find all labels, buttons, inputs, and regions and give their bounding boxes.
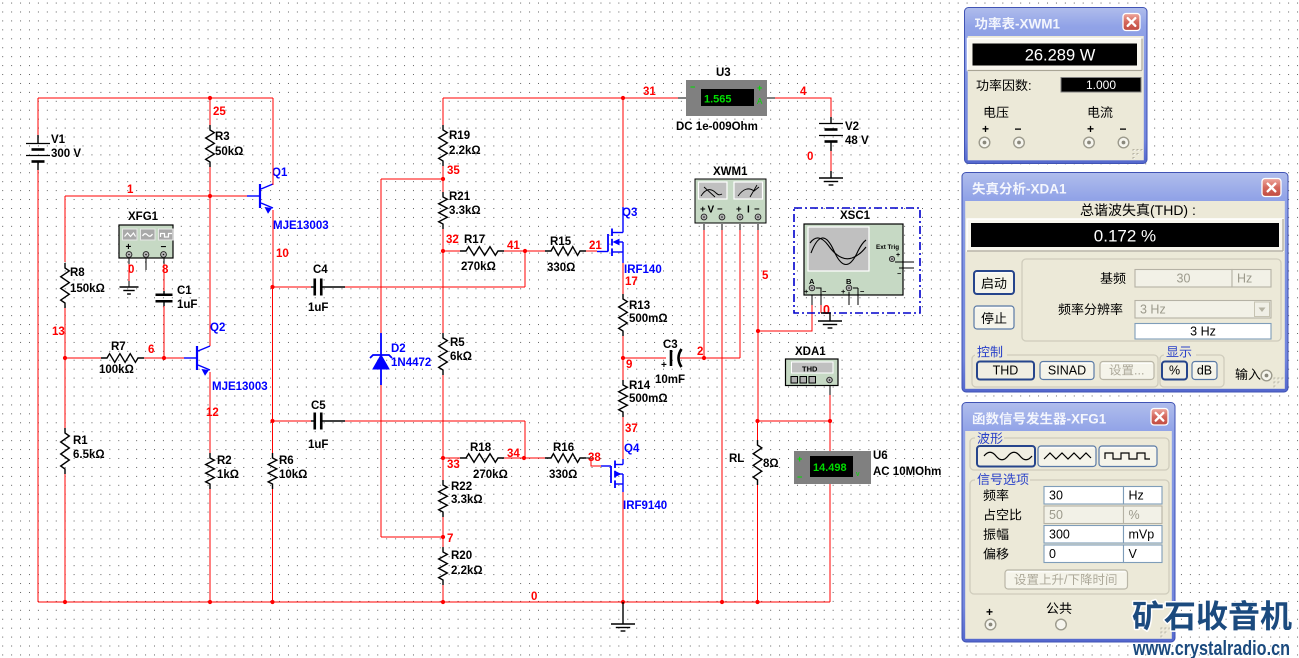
svg-text:R7: R7 [111, 341, 126, 353]
svg-text:−: − [1015, 122, 1022, 136]
svg-text:R2: R2 [217, 455, 232, 467]
svg-text:V2: V2 [845, 121, 859, 133]
wire C3 to wattmeter [680, 357, 740, 359]
svg-text:C3: C3 [663, 339, 678, 351]
capacitor C1 [156, 285, 198, 311]
svg-text:(THD) :: (THD) : [1150, 202, 1196, 218]
svg-text:13: 13 [52, 326, 65, 338]
svg-text:1uF: 1uF [177, 299, 197, 311]
svg-text:−: − [897, 271, 901, 278]
wire R18 to node 34 [504, 457, 545, 459]
node 5 label [762, 270, 769, 282]
wire XWM1 terminal 4 node 5 [757, 224, 759, 421]
svg-text:C5: C5 [311, 400, 326, 412]
junction node 33 [441, 456, 445, 460]
junction node 41 [523, 249, 527, 253]
svg-text:R17: R17 [464, 234, 485, 246]
wire node 1 horizontal [65, 195, 260, 197]
svg-text:R6: R6 [279, 455, 294, 467]
svg-text:−: − [717, 204, 723, 215]
junction node 31 [621, 96, 625, 100]
svg-text:+: + [841, 287, 846, 296]
svg-text:IRF9140: IRF9140 [623, 500, 667, 512]
wire R3 top [209, 98, 211, 125]
svg-text:3.3kΩ: 3.3kΩ [451, 494, 483, 506]
svg-text:-XDA1: -XDA1 [1026, 182, 1067, 197]
svg-text:+: + [896, 252, 900, 259]
wire Q3 drain [622, 98, 624, 207]
svg-text:www.crystalradio.cn: www.crystalradio.cn [1132, 637, 1290, 658]
svg-text:0: 0 [531, 591, 537, 603]
svg-text:+: + [661, 360, 667, 371]
svg-text:R14: R14 [629, 380, 651, 392]
ground XFG1 [120, 287, 139, 294]
wire V1 top [37, 98, 39, 135]
svg-text:150kΩ: 150kΩ [70, 283, 105, 295]
svg-text:C1: C1 [177, 285, 192, 297]
capacitor C5 [308, 400, 345, 451]
wire node 1 left vertical [64, 196, 66, 262]
junction node 1 [208, 194, 212, 198]
svg-text:XDA1: XDA1 [795, 346, 826, 358]
node 7 label [447, 533, 453, 545]
svg-text:21: 21 [589, 240, 602, 252]
svg-text:0: 0 [807, 151, 813, 163]
wire R15 to Q3 gate node 21 [586, 250, 597, 252]
svg-text:THD: THD [802, 365, 818, 374]
svg-text:I: I [747, 205, 750, 216]
svg-text:%: % [1169, 364, 1180, 378]
svg-text:B: B [846, 277, 852, 286]
wire node 35 to D2 [381, 179, 443, 333]
svg-text:R19: R19 [449, 130, 470, 142]
oscilloscope XSC1 [794, 208, 920, 313]
instrument panel wattmeter XWM1 [965, 8, 1148, 164]
wire R16 to Q4 gate node 38 [586, 458, 601, 466]
resistor R5 [439, 333, 472, 375]
wire node 5 horizontal [758, 420, 831, 422]
svg-text:−: − [860, 287, 865, 296]
wire R8 to node 13 [64, 308, 66, 358]
svg-text:Hz: Hz [1129, 489, 1144, 503]
svg-text:3 Hz: 3 Hz [1190, 325, 1216, 339]
svg-text:−: − [754, 204, 760, 215]
svg-text:mVp: mVp [1129, 528, 1155, 542]
wire R22 to node 7 [442, 517, 444, 537]
mosfet Q3 IRF140 [597, 207, 662, 276]
svg-text:U6: U6 [873, 450, 888, 462]
svg-text:R21: R21 [449, 191, 471, 203]
voltmeter U6 [794, 450, 941, 484]
svg-text:A: A [757, 97, 763, 106]
svg-text:32: 32 [446, 234, 459, 246]
resistor R6 [268, 453, 307, 489]
svg-text:dB: dB [1197, 364, 1212, 378]
svg-text:DC 1e-009Ohm: DC 1e-009Ohm [676, 121, 758, 133]
node 25 label [213, 106, 226, 118]
svg-text:6: 6 [148, 344, 154, 356]
junction RL rail [755, 600, 759, 604]
svg-text:+: + [1087, 122, 1094, 136]
wire R5 top [442, 251, 444, 333]
svg-text:10mF: 10mF [655, 374, 685, 386]
svg-text:48 V: 48 V [845, 135, 869, 147]
wire top-left rail node 25 [38, 97, 273, 99]
node 0 label [531, 591, 537, 603]
junction node 35 [441, 177, 445, 181]
resistor R20 [439, 537, 483, 585]
svg-text::: : [1028, 78, 1032, 93]
wire XFG1 plus pin to ground [128, 258, 130, 287]
node 9 label [626, 359, 632, 371]
svg-text:1: 1 [127, 184, 134, 196]
watermark crystalradio logo [1132, 600, 1291, 658]
svg-text:+: + [982, 122, 989, 136]
svg-text:R15: R15 [550, 236, 572, 248]
resistor R13 [619, 294, 668, 336]
wire node 32 to R17 [443, 250, 460, 252]
svg-text:7: 7 [447, 533, 453, 545]
svg-text:IRF140: IRF140 [624, 264, 662, 276]
node 10 label [276, 248, 289, 260]
svg-text:500mΩ: 500mΩ [629, 393, 668, 405]
resistor R3 [206, 125, 244, 167]
ground XSC1 [818, 313, 842, 328]
node 0 label XFG1 [128, 264, 134, 276]
wire C3 left [623, 357, 666, 359]
resistor RL [729, 440, 779, 485]
ground main rail [611, 602, 635, 631]
wire U6 top [829, 421, 831, 451]
svg-text:/: / [1064, 573, 1068, 587]
junction R6 rail [270, 600, 274, 604]
wire R7 to Q2 base [144, 357, 197, 359]
svg-text:+: + [736, 204, 742, 215]
svg-text:−: − [690, 82, 695, 92]
wire C4 to node 41 [345, 251, 525, 287]
junction node 32 [441, 249, 445, 253]
svg-text:v: v [856, 471, 860, 478]
svg-text:2.2kΩ: 2.2kΩ [449, 145, 481, 157]
node 34 label [507, 448, 520, 460]
svg-text:330Ω: 330Ω [549, 469, 577, 481]
svg-text:R16: R16 [553, 442, 574, 454]
junction node 2 [702, 356, 706, 360]
svg-text:Hz: Hz [1237, 272, 1252, 286]
node 21 label [589, 240, 602, 252]
ground V2 [819, 171, 843, 185]
svg-text:35: 35 [447, 165, 460, 177]
junction R20 rail [441, 600, 445, 604]
resistor R2 [206, 453, 239, 489]
svg-text:R13: R13 [629, 300, 650, 312]
node 33 label [447, 459, 460, 471]
wire R3 bottom [209, 167, 211, 196]
svg-text:50: 50 [1049, 508, 1063, 522]
resistor R1 [61, 428, 105, 474]
wire R1 to rail [64, 474, 66, 602]
wire RL top [757, 421, 759, 440]
svg-text:10: 10 [276, 248, 289, 260]
wire R6 to rail [272, 489, 274, 602]
wire R17 to node 41 [504, 250, 545, 252]
wire U6 to rail [829, 484, 831, 602]
svg-text:300: 300 [1049, 528, 1070, 542]
wire Q1 emitter down [272, 210, 274, 287]
junction XWM1 rail [720, 600, 724, 604]
svg-text:Q4: Q4 [624, 443, 640, 455]
instrument panel function generator XFG1 [962, 403, 1175, 643]
distortion analyzer icon XDA1 [786, 346, 839, 386]
svg-text:+: + [700, 204, 706, 215]
svg-text:6kΩ: 6kΩ [450, 351, 472, 363]
node 1 label [127, 184, 134, 196]
wire node 31 to U3 [623, 97, 686, 99]
wire D2 to node 7 [381, 385, 443, 537]
svg-text:270kΩ: 270kΩ [461, 261, 496, 273]
svg-text:Q3: Q3 [622, 207, 637, 219]
svg-text:50kΩ: 50kΩ [215, 146, 243, 158]
node 37 label [625, 423, 638, 435]
svg-text:V: V [1129, 547, 1138, 561]
junction node 6 C1 [162, 356, 166, 360]
svg-text:−: − [822, 287, 827, 296]
svg-text:THD: THD [993, 364, 1019, 378]
wire node 10 down to C5 line [272, 287, 274, 421]
wire XWM1 terminal 1 to node 2 [703, 224, 705, 358]
wire V1 bottom to ground rail [37, 170, 39, 602]
wire R20 to rail [442, 585, 444, 602]
resistor R16 [545, 442, 586, 481]
svg-text:330Ω: 330Ω [547, 262, 575, 274]
svg-text:100kΩ: 100kΩ [99, 364, 134, 376]
node 12 label [206, 407, 219, 419]
wire C4 left [273, 286, 312, 288]
junction R3 rail node 25 [208, 96, 212, 100]
capacitor C3 polarized [655, 339, 685, 386]
svg-text:1.565: 1.565 [704, 94, 732, 106]
svg-text:R3: R3 [215, 131, 230, 143]
svg-text:30: 30 [1177, 272, 1191, 286]
svg-text:+: + [757, 83, 762, 93]
svg-text:8: 8 [162, 264, 169, 276]
svg-text:XSC1: XSC1 [840, 210, 871, 222]
svg-text:30: 30 [1049, 489, 1063, 503]
svg-text:A: A [809, 277, 815, 286]
svg-text:U3: U3 [716, 67, 731, 79]
resistor R17 [460, 234, 504, 273]
junction C5 node 10 [270, 419, 274, 423]
svg-text:0.172 %: 0.172 % [1094, 227, 1156, 246]
wire XWM1 terminal 3 [739, 224, 741, 358]
transistor Q2 [184, 322, 268, 393]
svg-text:RL: RL [729, 453, 744, 465]
mosfet Q4 IRF9140 [601, 443, 667, 512]
svg-text:1.000: 1.000 [1086, 78, 1116, 92]
svg-text:26.289 W: 26.289 W [1025, 47, 1096, 65]
junction node 9 [621, 356, 625, 360]
svg-text:34: 34 [507, 448, 520, 460]
wire RL to rail [757, 485, 759, 602]
wire XDA1 to node 5 [829, 385, 831, 421]
node 32 label [446, 234, 459, 246]
resistor R14 [619, 358, 668, 417]
svg-text:+: + [797, 454, 802, 464]
wire R14 to Q4 [622, 417, 624, 459]
junction Q4 rail [621, 600, 625, 604]
wire node 13 down [64, 358, 66, 428]
node 17 label [625, 276, 638, 288]
wire node 33 to R18 [443, 457, 460, 459]
function generator icon XFG1 [119, 211, 173, 258]
wire R7 line node 13 to node 6 [65, 357, 101, 359]
svg-text:33: 33 [447, 459, 460, 471]
node 0 label V2 [807, 151, 813, 163]
node 4 label [800, 86, 807, 98]
wire R6 top [272, 421, 274, 453]
svg-text:25: 25 [213, 106, 226, 118]
svg-text:3.3kΩ: 3.3kΩ [449, 205, 481, 217]
transistor Q1 [247, 167, 329, 232]
svg-text:37: 37 [625, 423, 638, 435]
svg-text:8Ω: 8Ω [763, 458, 779, 470]
svg-text:500mΩ: 500mΩ [629, 313, 668, 325]
svg-text:R5: R5 [450, 337, 465, 349]
svg-text:V: V [708, 205, 715, 216]
svg-text:+: + [804, 287, 809, 296]
svg-text:D2: D2 [391, 343, 406, 355]
zener diode D2 [370, 333, 431, 385]
resistor R8 [61, 263, 105, 308]
wire R2 to rail [209, 489, 211, 602]
wattmeter icon XWM1 [695, 166, 766, 223]
svg-text:R1: R1 [73, 435, 88, 447]
resistor R18 [460, 442, 508, 481]
svg-text:0: 0 [1049, 547, 1056, 561]
wire U3 to V2 node 4 [767, 98, 831, 117]
svg-text:6.5kΩ: 6.5kΩ [73, 449, 105, 461]
svg-text:300 V: 300 V [51, 148, 81, 160]
svg-text:1uF: 1uF [308, 302, 328, 314]
wire C5 left [273, 420, 312, 422]
wire node 5 to scope A [758, 295, 812, 331]
svg-text:SINAD: SINAD [1048, 364, 1086, 378]
resistor R7 [99, 341, 144, 376]
node 2 label [697, 346, 703, 358]
node 38 label [588, 452, 601, 464]
svg-text:-XWM1: -XWM1 [1015, 17, 1060, 32]
svg-text:2: 2 [697, 346, 703, 358]
svg-text:3 Hz: 3 Hz [1140, 303, 1166, 317]
svg-text:XFG1: XFG1 [128, 211, 159, 223]
junction node 34 [522, 456, 526, 460]
junction node 5 RL [755, 419, 759, 423]
svg-text:R22: R22 [451, 481, 472, 493]
svg-text:Q2: Q2 [210, 322, 225, 334]
svg-text:%: % [1129, 508, 1140, 522]
capacitor C4 [308, 264, 345, 314]
junction node 13 [63, 356, 67, 360]
wire Q2 emitter to R2 [209, 372, 211, 453]
junction R2 rail [208, 600, 212, 604]
wire XFG1 minus pin to C1 [163, 258, 165, 291]
node 13 label [52, 326, 65, 338]
svg-text:+: + [986, 605, 993, 619]
svg-text:−: − [797, 472, 802, 482]
ammeter U3 [676, 67, 767, 133]
svg-text:XWM1: XWM1 [713, 166, 748, 178]
svg-text:R18: R18 [470, 442, 492, 454]
wire Q1 collector [272, 98, 274, 185]
resistor R22 [439, 458, 483, 517]
node 8 label [162, 264, 169, 276]
node 31 label [643, 86, 656, 98]
battery V2 [819, 117, 869, 151]
wire C1 to node 6 [163, 306, 165, 358]
wire scope A minus to ground [816, 288, 821, 313]
node 41 label [507, 240, 520, 252]
svg-text:V1: V1 [51, 134, 66, 146]
svg-text:5: 5 [762, 270, 769, 282]
wire V2 to ground [830, 151, 832, 171]
svg-text:2.2kΩ: 2.2kΩ [451, 565, 483, 577]
svg-text:C4: C4 [313, 264, 328, 276]
svg-text:1N4472: 1N4472 [391, 357, 431, 369]
wire R19 top [442, 98, 444, 125]
svg-text:41: 41 [507, 240, 520, 252]
svg-text:−: − [1120, 122, 1127, 136]
junction node 7 [441, 535, 445, 539]
svg-text:17: 17 [625, 276, 638, 288]
svg-text:0: 0 [823, 303, 830, 317]
svg-text:270kΩ: 270kΩ [473, 469, 508, 481]
svg-text:...: ... [1134, 364, 1144, 378]
wire XWM1 terminal 2 to rail [721, 224, 723, 602]
wire R5 to node 33 [442, 375, 444, 458]
wire R19 to node 35 [442, 166, 444, 179]
instrument panel distortion analyzer XDA1 [962, 173, 1288, 393]
svg-text:MJE13003: MJE13003 [273, 220, 329, 232]
node 6 label [148, 344, 154, 356]
resistor R21 [439, 179, 481, 229]
junction node 5 U6 [828, 419, 832, 423]
resistor R15 [545, 236, 586, 274]
svg-text:R20: R20 [451, 550, 472, 562]
wire R21 to node 32 [442, 229, 444, 251]
svg-text:38: 38 [588, 452, 601, 464]
svg-text:-XFG1: -XFG1 [1067, 412, 1107, 427]
resistor R19 [439, 125, 481, 166]
wire R13 to node 9 [622, 336, 624, 358]
svg-text:9: 9 [626, 359, 632, 371]
svg-text:1kΩ: 1kΩ [217, 469, 239, 481]
wire top middle rail node 31 [443, 97, 623, 99]
node 0 label XSC1 [823, 303, 830, 317]
node 35 label [447, 165, 460, 177]
battery V1 [26, 134, 81, 170]
svg-text:1uF: 1uF [308, 439, 328, 451]
stub XFG1 middle pin [145, 258, 147, 270]
wire Q4 source to rail [622, 492, 624, 602]
svg-text:4: 4 [800, 86, 807, 98]
svg-text:10kΩ: 10kΩ [279, 469, 307, 481]
svg-text:AC 10MOhm: AC 10MOhm [873, 466, 941, 478]
svg-text:Ext Trig: Ext Trig [876, 244, 899, 251]
svg-text:14.498: 14.498 [813, 462, 847, 474]
svg-text:31: 31 [643, 86, 656, 98]
svg-text:R8: R8 [70, 267, 85, 279]
junction node 10 [270, 285, 274, 289]
